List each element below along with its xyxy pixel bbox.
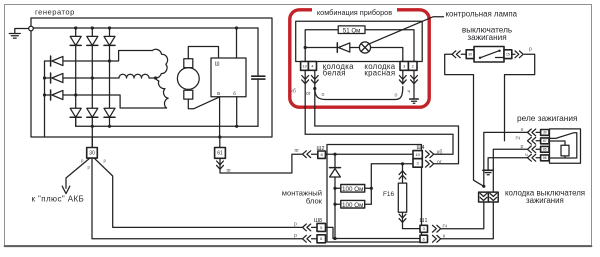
pin 86 of relay [541, 155, 549, 161]
svg-text:ог: ог [306, 91, 311, 97]
stator winding L3 (bottom phase) [156, 78, 169, 108]
diode VD9 (field) [50, 90, 52, 100]
wire: switch 15 to relay 87 [505, 54, 535, 141]
cluster pin 4 (white block) [308, 62, 316, 71]
pin 30 of relay [541, 130, 549, 136]
terminal 30 of generator [91, 137, 93, 148]
cluster pin 3 (red block) [400, 62, 408, 71]
fuse F16 [403, 164, 421, 229]
svg-text:87: 87 [543, 139, 547, 143]
svg-text:10: 10 [415, 152, 420, 157]
svg-text:кб: кб [291, 89, 296, 95]
wire: terminal 30 to battery (arrow) [66, 158, 90, 188]
svg-text:ог: ог [437, 159, 442, 165]
wire: relay 86 to ground [488, 158, 527, 170]
pin 15 of switch [504, 50, 512, 59]
wire: field-diode rail [44, 61, 46, 137]
diode VD5 (negative) [87, 108, 98, 117]
diode VD6 (negative) [104, 108, 115, 117]
generator box G1 [31, 18, 272, 137]
wire: block top rail [325, 153, 413, 155]
connector from Ш4-3 [426, 160, 434, 167]
connector to Ш2-8 [303, 151, 311, 158]
connector from Ш1-6 [433, 235, 441, 242]
resistor R3 100 Ом [335, 203, 371, 205]
svg-text:гч: гч [516, 136, 521, 142]
svg-text:белая: белая [323, 69, 346, 78]
wire: phase row 2 [45, 77, 120, 79]
voltage regulator U1 [211, 58, 246, 97]
wire: relay 30 to connector (red) [484, 132, 528, 186]
pin 30 of switch [466, 50, 474, 59]
instrument cluster red highlight [290, 10, 429, 107]
connector on terminal 61 wire [217, 161, 224, 169]
wire: switch 30 supply [445, 54, 484, 186]
diode VD1 (positive) [70, 36, 81, 45]
pin Ш4-10 [413, 151, 422, 159]
wire: lamp branch [305, 47, 337, 49]
wire: rectifier column 1 [75, 28, 77, 126]
ignition switch S1 [474, 47, 504, 63]
svg-text:ч: ч [408, 89, 411, 95]
diode VD11 (mounting block) [334, 154, 336, 167]
svg-text:51 Ом: 51 Ом [343, 27, 361, 34]
svg-text:р: р [294, 233, 297, 239]
wire: connector cell 2 to Ш1-6 (red) [441, 202, 493, 239]
connector left of switch [452, 51, 460, 58]
cluster pin 13 (white block) [301, 62, 309, 71]
pin Ш8-5 [317, 223, 326, 231]
svg-text:Ш1: Ш1 [420, 218, 428, 224]
resistor R1 51 Ом [338, 26, 365, 34]
wire: terminal 30 to mounting block Ш8-6 (pink) [92, 158, 303, 239]
pointer line to control lamp [370, 17, 444, 44]
svg-text:2: 2 [412, 63, 414, 68]
svg-text:61: 61 [217, 151, 223, 157]
svg-text:85: 85 [543, 148, 547, 152]
wire: resistor rail to Ш4-3 line [371, 164, 413, 204]
wire: terminal 61 to mounting block Ш2-8 [220, 154, 303, 173]
node: case terminal circle [29, 26, 34, 31]
stator winding L1 (top phase) [152, 49, 167, 78]
diode VD2 (positive) [87, 36, 98, 45]
wire: regulator top to negative rail [236, 28, 238, 58]
wire: plus bus (line A) [76, 119, 258, 127]
svg-text:р: р [529, 47, 532, 53]
wire: resistor to pin 2 [365, 30, 414, 62]
wire: cluster left branch [305, 30, 338, 62]
pin 85 of relay [541, 146, 549, 152]
svg-text:F16: F16 [383, 191, 394, 198]
svg-text:пг: пг [295, 148, 300, 154]
pin Ш8-6 [317, 235, 326, 243]
svg-text:зажигания: зажигания [467, 33, 506, 42]
instrument cluster box [296, 21, 423, 61]
svg-text:реле зажигания: реле зажигания [517, 113, 578, 123]
svg-text:р: р [294, 222, 297, 228]
ignition switch connector block (колодка) [479, 192, 489, 202]
wire: pin 3 down [402, 70, 404, 84]
pin 87 of relay [541, 138, 549, 144]
resistor R2 100 Ом [335, 187, 371, 189]
capacitor C1 [257, 28, 259, 76]
mounting block box [327, 145, 422, 243]
svg-text:контрольная лампа: контрольная лампа [446, 10, 518, 19]
wire: terminal 30 to mounting block Ш8-5 (pink) [95, 158, 303, 227]
svg-text:3: 3 [403, 63, 405, 68]
wire: negative top rail [33, 27, 258, 29]
pin Ш4-3 [413, 159, 422, 168]
rotor (field winding + slip rings) [177, 68, 199, 90]
wire: bottom brush to regulator В [188, 97, 219, 109]
wire: pin 4 to pin 3 jumper [313, 87, 316, 90]
wire: Ш8-5/6 jumper [326, 227, 334, 238]
wire: regulator В down to terminal 61 [219, 97, 221, 137]
svg-text:кб: кб [437, 150, 442, 156]
svg-text:30: 30 [543, 131, 547, 135]
wire: pin 13 down (white-black) [304, 70, 306, 134]
wire: cluster 4 to Ш4-3 (orange) [315, 126, 459, 164]
connectors to relay pins [528, 129, 536, 136]
terminal 61 of generator [219, 137, 221, 148]
svg-text:генератор: генератор [35, 8, 75, 17]
wire: phase row 3 [45, 95, 167, 108]
diode VD4 (negative) [70, 108, 81, 117]
diode VD3 (positive) [104, 36, 115, 45]
wire: block bottom rail [333, 238, 420, 240]
svg-text:100 Ом: 100 Ом [342, 186, 363, 193]
pin Ш1-6 [420, 235, 428, 242]
wire: regulator б to plus bus [236, 97, 238, 127]
wire: phase row 1 [45, 51, 153, 62]
svg-text:86: 86 [543, 156, 547, 160]
cluster pin 2 (red block) [408, 62, 417, 71]
connector from Ш1-3 [433, 225, 441, 232]
ground (generator case) [9, 29, 29, 39]
svg-text:15: 15 [506, 52, 510, 56]
diode VD10 (cluster) [336, 43, 338, 53]
svg-text:30: 30 [468, 52, 472, 56]
wire: connector cell 1 to Ш1-3 (grey-black) [441, 202, 484, 229]
wire: lamp to pin 3 [371, 48, 403, 62]
node: stator star point [154, 76, 157, 79]
stator winding L2 (middle phase) [119, 74, 156, 78]
svg-text:к "плюс" АКБ: к "плюс" АКБ [32, 195, 85, 204]
ground (cluster) [410, 98, 419, 100]
svg-text:зажигания: зажигания [526, 196, 564, 205]
wire: rectifier column 2 [91, 28, 93, 148]
wire: pin 4 down (orange) [314, 70, 316, 126]
svg-text:красная: красная [364, 69, 395, 78]
wire: cluster 13 to Ш4-10 (white-black) [305, 134, 453, 154]
ground (relay) [483, 169, 493, 171]
svg-text:100 Ом: 100 Ом [342, 202, 363, 209]
svg-text:В: В [217, 91, 220, 96]
svg-text:о: о [322, 92, 325, 98]
control lamp HL1 [359, 42, 370, 53]
connector to Ш8-6 [303, 235, 311, 242]
connector to Ш8-5 [303, 224, 311, 231]
pin Ш2-8 [318, 151, 326, 158]
diode VD8 (field) [50, 73, 52, 83]
wire: pin 2 to ground [413, 70, 415, 98]
svg-text:30: 30 [89, 151, 95, 157]
wire: relay 85 to connector [493, 149, 527, 192]
wire: rectifier column 3 [109, 28, 111, 126]
svg-text:о: о [395, 93, 398, 99]
diode VD7 (field) [50, 56, 52, 66]
svg-text:13: 13 [302, 63, 306, 68]
connector from Ш4-10 [426, 151, 434, 158]
svg-text:блок: блок [306, 197, 323, 206]
svg-text:комбинация приборов: комбинация приборов [317, 8, 392, 17]
ignition relay K1 [550, 129, 581, 163]
label комбинация приборов [312, 7, 397, 17]
svg-text:Ш: Ш [215, 62, 220, 68]
connector right of switch [515, 51, 523, 58]
pin Ш1-3 [420, 225, 428, 232]
wire: top brush to regulator Ш [188, 47, 218, 59]
